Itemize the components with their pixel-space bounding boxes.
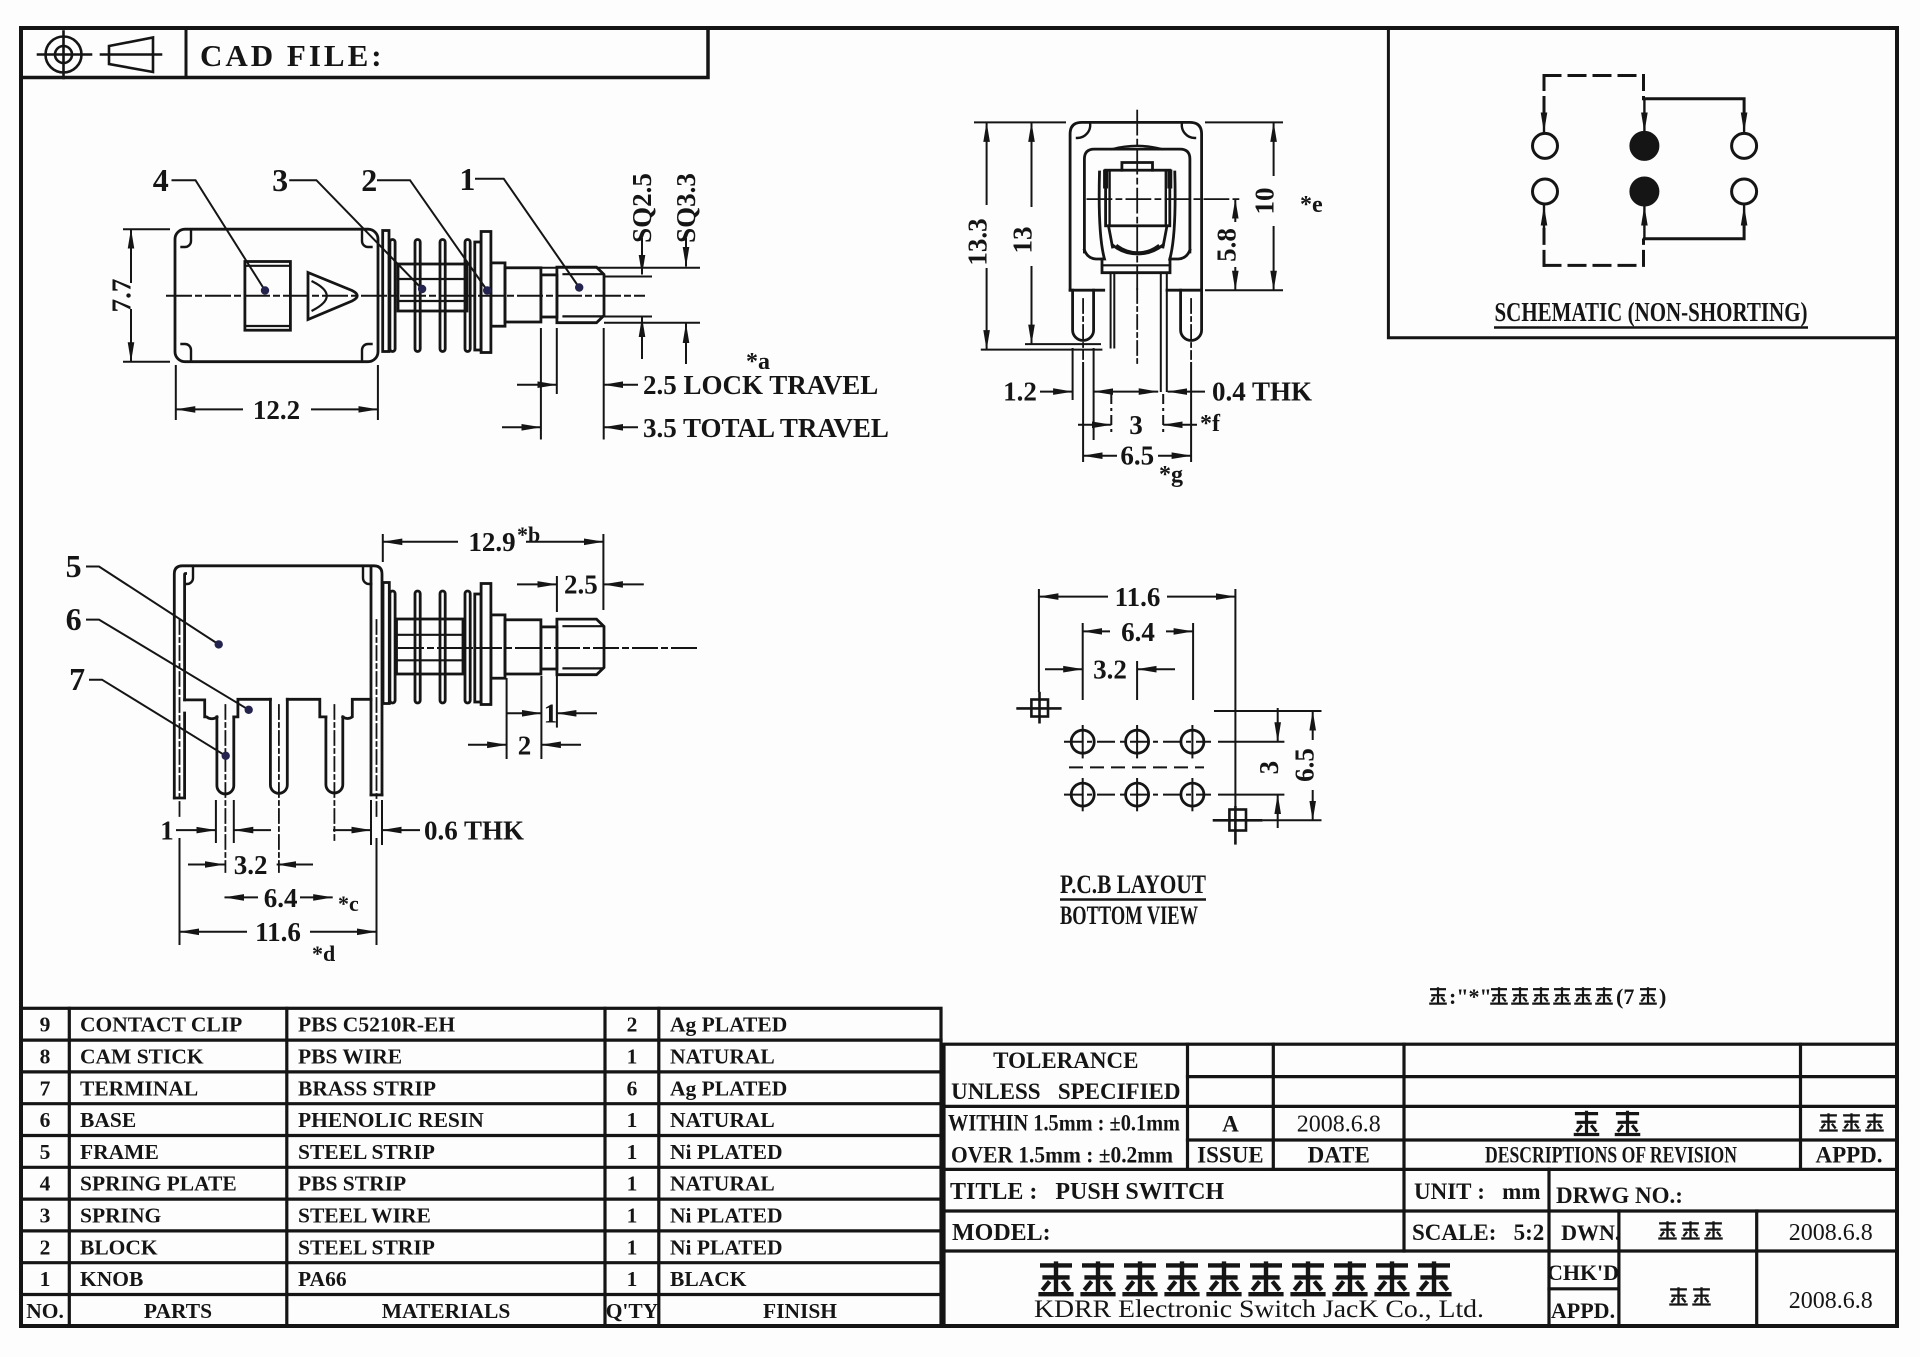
- frame left wall inner line: [185, 574, 186, 700]
- dim 3.2 pcb ext line: [1136, 661, 1138, 700]
- parts table frame: [21, 1008, 941, 1326]
- view2 dimensions: [86, 534, 644, 945]
- svg-text:*d: *d: [312, 941, 335, 966]
- svg-text:*e: *e: [1300, 192, 1323, 218]
- trapezoid under knob: [1109, 226, 1113, 247]
- pin circle open TR: [1732, 133, 1757, 158]
- svg-text:SQ2.5: SQ2.5: [627, 173, 657, 243]
- svg-text:NATURAL: NATURAL: [670, 1108, 775, 1132]
- neck view2: [541, 627, 557, 669]
- revision text 初版: [1574, 1111, 1600, 1135]
- shaft step view2: [491, 615, 505, 678]
- svg-text:6.5: 6.5: [1120, 441, 1154, 471]
- svg-text:PHENOLIC RESIN: PHENOLIC RESIN: [298, 1108, 484, 1132]
- mount hole bottom-right: [1213, 806, 1263, 845]
- svg-text:STEEL STRIP: STEEL STRIP: [298, 1140, 435, 1164]
- svg-text:(7: (7: [1616, 984, 1634, 1009]
- svg-text:TERMINAL: TERMINAL: [80, 1076, 198, 1100]
- svg-text:2: 2: [627, 1013, 638, 1037]
- dwn 张小姐: [1658, 1221, 1676, 1238]
- dim 1.2 arrows: [1040, 391, 1073, 393]
- pcb texts: [1060, 582, 1320, 930]
- front right leg: [1181, 290, 1202, 340]
- dim 3 arrows: [1078, 424, 1111, 426]
- svg-text:2: 2: [361, 162, 377, 198]
- dashed rect top edge: [1544, 74, 1644, 77]
- view1 dimensions: [123, 179, 700, 440]
- CAD FILE bar divider: [185, 28, 188, 78]
- svg-text:5: 5: [66, 548, 82, 584]
- pin 2 view2: [270, 699, 287, 793]
- dim 13.3: [986, 122, 988, 205]
- svg-text:3: 3: [1129, 410, 1143, 440]
- dim 0.6 THK arrows: [333, 829, 371, 831]
- svg-text:13.3: 13.3: [963, 218, 993, 265]
- svg-text:2.5: 2.5: [564, 570, 598, 600]
- svg-text:6: 6: [66, 601, 82, 637]
- dim 3.2 arrows view2: [188, 864, 225, 866]
- svg-text:CAM STICK: CAM STICK: [80, 1045, 204, 1069]
- cam stick block inside spring: [398, 264, 467, 311]
- frame right wall inner line: [370, 567, 373, 795]
- solid wire bottom: [1644, 226, 1744, 239]
- spring coils view1: [390, 240, 395, 352]
- svg-text:BLACK: BLACK: [670, 1267, 747, 1291]
- washer at body exit: [383, 231, 389, 352]
- spring coils view2: [390, 591, 395, 703]
- svg-text:8: 8: [40, 1045, 51, 1069]
- svg-text:Ag PLATED: Ag PLATED: [670, 1076, 787, 1100]
- frame right leg bottom: [371, 794, 382, 797]
- corner hook TL: [182, 229, 192, 247]
- knob corner marks: [1106, 172, 1170, 186]
- SQ2.5 arrow: [641, 238, 643, 275]
- SQ3.3 reference lines: [505, 267, 700, 269]
- corner hook BR: [362, 344, 372, 362]
- corner hook BL: [182, 344, 192, 362]
- svg-text:*g: *g: [1159, 462, 1183, 488]
- bottom ref line: [1263, 819, 1322, 821]
- svg-text:12.2: 12.2: [253, 395, 300, 425]
- svg-text::"*": :"*": [1449, 984, 1492, 1009]
- travel dim extension lines: [540, 328, 542, 440]
- row2 crosshair horizontal: [1064, 794, 1211, 796]
- svg-text:KDRR Electronic Switch JacK Co: KDRR Electronic Switch JacK Co., Ltd.: [1034, 1296, 1484, 1323]
- frame outline view2: [174, 566, 382, 798]
- top ext line: [974, 121, 1066, 123]
- svg-text:1: 1: [544, 699, 558, 729]
- svg-text:*a: *a: [746, 349, 770, 375]
- title block row lines: [1188, 1075, 1898, 1078]
- svg-text:UNLESS SPECIFIED: UNLESS SPECIFIED: [951, 1079, 1180, 1104]
- dim 3 pcb arrows: [1277, 708, 1279, 742]
- dim 11.6 arrows: [180, 931, 248, 933]
- column crosshair verticals: [1082, 725, 1084, 758]
- mount hole top-left: [1016, 692, 1061, 724]
- svg-text:5: 5: [40, 1140, 51, 1164]
- svg-text:APPD.: APPD.: [1815, 1143, 1882, 1168]
- leg centerlines: [1082, 299, 1084, 359]
- middle dashed line: [1069, 766, 1204, 768]
- svg-text:3: 3: [272, 162, 288, 198]
- pointer triangle: [308, 273, 357, 320]
- dim 12.2 arrow lines: [176, 408, 243, 410]
- pin circle open TL: [1533, 133, 1558, 158]
- svg-text:CHK'D: CHK'D: [1547, 1260, 1619, 1285]
- svg-text:10: 10: [1250, 188, 1280, 215]
- svg-text:NATURAL: NATURAL: [670, 1172, 775, 1196]
- dim 3.5 total travel arrows: [502, 426, 541, 428]
- svg-text:ISSUE: ISSUE: [1197, 1143, 1263, 1168]
- svg-text:4: 4: [153, 162, 169, 198]
- right ref line top hole: [1214, 710, 1322, 712]
- callout 3 leader: [289, 180, 422, 289]
- row1 crosshair horizontal: [1064, 741, 1211, 743]
- pin centerlines: [224, 705, 226, 872]
- shaft view2: [505, 620, 541, 674]
- right ext line y290: [1205, 289, 1283, 291]
- svg-text:13: 13: [1008, 227, 1038, 254]
- knob front square: [1106, 170, 1170, 226]
- svg-text:PBS STRIP: PBS STRIP: [298, 1172, 406, 1196]
- svg-text:3.5 TOTAL TRAVEL: 3.5 TOTAL TRAVEL: [643, 413, 889, 443]
- svg-text:): ): [1659, 984, 1666, 1009]
- svg-text:BOTTOM VIEW: BOTTOM VIEW: [1060, 901, 1198, 930]
- svg-text:1: 1: [627, 1267, 638, 1291]
- shaft step: [491, 263, 505, 326]
- svg-text:A: A: [1222, 1112, 1239, 1137]
- SQ2.5 lower arrow: [641, 318, 643, 360]
- note chars 表示关键尺寸: [1490, 987, 1508, 1003]
- stem under base: [1102, 259, 1170, 273]
- svg-text:P.C.B LAYOUT: P.C.B LAYOUT: [1060, 870, 1206, 899]
- svg-text:5.8: 5.8: [1211, 228, 1241, 262]
- shaft: [505, 268, 541, 322]
- corner hook TL view2: [185, 566, 193, 584]
- svg-text:MODEL:: MODEL:: [952, 1220, 1051, 1246]
- dim 1 pin arrows: [176, 829, 216, 831]
- pin 3 view2: [326, 717, 343, 793]
- chkd 刘工: [1669, 1287, 1687, 1304]
- svg-text:*c: *c: [338, 891, 359, 916]
- svg-text:2008.6.8: 2008.6.8: [1297, 1112, 1381, 1138]
- svg-text:2: 2: [40, 1235, 51, 1259]
- pad circles row1: [1071, 730, 1204, 806]
- left wall centerline: [179, 620, 181, 820]
- svg-text:12.9: 12.9: [468, 527, 515, 557]
- svg-text:7.7: 7.7: [107, 279, 137, 313]
- dim 11.6 pcb arrows: [1039, 596, 1108, 598]
- svg-text:NO.: NO.: [26, 1299, 64, 1323]
- svg-text:*b: *b: [517, 522, 540, 547]
- centerline view2: [399, 647, 697, 649]
- dim 7.7 extension lines: [123, 228, 170, 230]
- svg-text:4: 4: [40, 1172, 51, 1196]
- svg-text:FINISH: FINISH: [763, 1299, 837, 1323]
- corner hook front TL: [1077, 123, 1090, 138]
- knob top tab: [1122, 163, 1153, 171]
- svg-text:7: 7: [69, 661, 85, 697]
- parts table texts: [26, 1013, 837, 1323]
- projection symbol circle: [38, 32, 91, 79]
- svg-text:1: 1: [627, 1108, 638, 1132]
- spring dome arcs: [1113, 245, 1164, 254]
- svg-text:Ni PLATED: Ni PLATED: [670, 1204, 783, 1228]
- dim 3.2 pcb arrows: [1045, 668, 1083, 670]
- svg-text:STEEL WIRE: STEEL WIRE: [298, 1204, 431, 1228]
- dim 11.6 ext lines: [179, 838, 181, 945]
- svg-text:DATE: DATE: [1308, 1143, 1370, 1168]
- note char 注: [1429, 987, 1447, 1003]
- view2 texts: [66, 522, 598, 966]
- frame left leg bottom: [174, 713, 184, 798]
- parts table column lines: [68, 1008, 71, 1326]
- pin circle open BR: [1732, 179, 1757, 204]
- dim 0.4 arrows: [1168, 391, 1205, 393]
- dim 0.6 THK ext lines: [370, 800, 372, 845]
- dim 3 ext dashes: [1110, 394, 1112, 432]
- svg-text:11.6: 11.6: [255, 917, 301, 947]
- svg-text:1: 1: [160, 816, 174, 846]
- dim 10: [1273, 122, 1275, 176]
- dim 1 arrows: [506, 712, 541, 714]
- front frame bottom edges: [1070, 289, 1104, 292]
- svg-text:1: 1: [627, 1172, 638, 1196]
- dim 12.2 extension lines: [175, 365, 177, 420]
- svg-text:2008.6.8: 2008.6.8: [1789, 1220, 1873, 1246]
- svg-text:CONTACT CLIP: CONTACT CLIP: [80, 1013, 242, 1037]
- svg-text:6.4: 6.4: [264, 883, 298, 913]
- dim 2.5 knob ext line: [556, 576, 558, 612]
- front vertical centerline: [1136, 111, 1138, 289]
- svg-text:APPD.: APPD.: [1551, 1298, 1615, 1323]
- svg-text:PBS WIRE: PBS WIRE: [298, 1045, 402, 1069]
- dim 6.5 pcb arrows: [1312, 711, 1314, 740]
- CAD FILE bar: [21, 28, 708, 78]
- dim 2 arrows: [468, 744, 507, 746]
- svg-text:1: 1: [627, 1235, 638, 1259]
- svg-text:3.2: 3.2: [234, 850, 268, 880]
- corner hook TR: [362, 229, 372, 247]
- left wing: [1084, 172, 1104, 259]
- knob view2: [557, 619, 604, 675]
- svg-text:1: 1: [40, 1267, 51, 1291]
- svg-text:1: 1: [627, 1140, 638, 1164]
- dim 13: [1031, 122, 1033, 207]
- SQ3.3 arrow: [685, 238, 687, 267]
- base top dome: [1113, 146, 1162, 149]
- svg-text:SCALE: 5:2: SCALE: 5:2: [1412, 1220, 1544, 1245]
- svg-text:1: 1: [627, 1204, 638, 1228]
- svg-text:6.5: 6.5: [1290, 748, 1320, 782]
- pin circle filled BC: [1631, 178, 1658, 205]
- dashed rect bottom edge: [1544, 264, 1644, 267]
- callout 5 leader: [86, 567, 219, 645]
- dim 12.9 ext lines: [382, 534, 384, 562]
- dim 2.5 arrows view2: [517, 583, 557, 585]
- dim 7.7 arrow lines: [130, 229, 132, 283]
- dim 6.4 pcb arrows: [1083, 630, 1110, 632]
- dim 1 pin ext lines: [215, 800, 217, 843]
- svg-text:Ni PLATED: Ni PLATED: [670, 1235, 783, 1259]
- pin circle filled TC: [1631, 132, 1658, 159]
- corner hook TR view2: [363, 566, 371, 584]
- front view dimensions: [974, 122, 1283, 462]
- svg-text:KNOB: KNOB: [80, 1267, 143, 1291]
- dates (regular serif): [1297, 1112, 1873, 1315]
- front view texts: [963, 188, 1323, 489]
- svg-text:SCHEMATIC (NON-SHORTING): SCHEMATIC (NON-SHORTING): [1495, 297, 1808, 327]
- svg-text:9: 9: [40, 1013, 51, 1037]
- svg-text:Ni PLATED: Ni PLATED: [670, 1140, 783, 1164]
- svg-text:1.2: 1.2: [1003, 377, 1037, 407]
- svg-text:1: 1: [459, 161, 475, 197]
- svg-text:TITLE : PUSH SWITCH: TITLE : PUSH SWITCH: [950, 1179, 1224, 1205]
- parts table row lines: [21, 1038, 941, 1041]
- neck: [541, 275, 557, 317]
- svg-text:0.4 THK: 0.4 THK: [1212, 377, 1312, 407]
- thin pin right front: [1161, 273, 1167, 391]
- svg-text:WITHIN 1.5mm : ±0.1mm: WITHIN 1.5mm : ±0.1mm: [948, 1111, 1180, 1136]
- flange plates: [475, 242, 481, 350]
- front frame outline: [1070, 122, 1202, 290]
- pin 1 view2: [217, 717, 234, 794]
- dim 1 neck ext lines: [540, 676, 542, 759]
- svg-text:STEEL STRIP: STEEL STRIP: [298, 1235, 435, 1259]
- svg-text:PARTS: PARTS: [144, 1299, 212, 1323]
- right wing: [1170, 172, 1190, 259]
- note char 个: [1639, 987, 1657, 1003]
- svg-text:UNIT : mm: UNIT : mm: [1414, 1179, 1541, 1204]
- dim 2.5 lock travel arrows: [517, 384, 557, 386]
- bottom ext lines 13.3 / 13: [981, 349, 1103, 351]
- svg-text:3: 3: [1254, 761, 1284, 775]
- svg-text:PBS C5210R-EH: PBS C5210R-EH: [298, 1013, 455, 1037]
- svg-text:Ag PLATED: Ag PLATED: [670, 1013, 787, 1037]
- SQ3.3 lower arrow: [685, 324, 687, 365]
- svg-text:SQ3.3: SQ3.3: [671, 173, 701, 243]
- svg-text:DESCRIPTIONS OF REVISION: DESCRIPTIONS OF REVISION: [1485, 1143, 1737, 1168]
- svg-text:3: 3: [40, 1204, 51, 1228]
- svg-text:1: 1: [627, 1045, 638, 1069]
- svg-text:11.6: 11.6: [1115, 582, 1161, 612]
- callout 7 leader: [89, 680, 226, 756]
- callout 1 leader: [475, 179, 579, 288]
- callout 2 leader: [377, 180, 487, 290]
- callout 4 leader: [172, 180, 266, 290]
- dashed left vertical bottom with arrow: [1543, 222, 1546, 265]
- svg-text:BASE: BASE: [80, 1108, 136, 1132]
- svg-text:Q'TY: Q'TY: [606, 1299, 659, 1323]
- dashed left vertical top with arrow: [1543, 76, 1546, 121]
- right ref segments rows: [1218, 741, 1284, 743]
- projection symbol cone: [101, 38, 161, 73]
- svg-text:SPRING: SPRING: [80, 1204, 162, 1228]
- svg-text:CAD FILE:: CAD FILE:: [200, 38, 385, 73]
- svg-text:MATERIALS: MATERIALS: [382, 1299, 511, 1323]
- base outline front: [1084, 149, 1190, 252]
- svg-text:*f: *f: [1200, 411, 1221, 437]
- svg-text:BLOCK: BLOCK: [80, 1235, 158, 1259]
- dim 6.4 pcb ext lines: [1082, 623, 1084, 700]
- title block frame: [944, 1044, 1897, 1326]
- solid wire top: [1644, 99, 1744, 112]
- cam stick block view2: [397, 619, 464, 674]
- appd 张小姐 top: [1819, 1113, 1837, 1130]
- dim 12.9 arrows: [383, 541, 458, 543]
- svg-text:DRWG NO.:: DRWG NO.:: [1556, 1183, 1683, 1208]
- svg-text:3.2: 3.2: [1093, 655, 1127, 685]
- spring plate (part 4) rect: [245, 262, 291, 331]
- corner hook front TR: [1182, 123, 1195, 138]
- title block texts: [948, 1048, 1883, 1323]
- company name CJK: [1038, 1261, 1073, 1294]
- dim 11.6 pcb ext lines: [1038, 589, 1040, 692]
- washer view2: [383, 583, 389, 704]
- right wall centerline: [376, 620, 378, 820]
- thin pin left front: [1111, 273, 1115, 348]
- dashed right vertical top: [1642, 76, 1645, 99]
- front left leg: [1073, 290, 1094, 340]
- dashed right vertical bottom: [1642, 240, 1645, 265]
- view1 texts: [107, 161, 889, 443]
- svg-text:6: 6: [627, 1076, 638, 1100]
- callout 6 leader: [86, 620, 249, 710]
- base bottom profile: [185, 700, 217, 719]
- svg-text:PA66: PA66: [298, 1267, 347, 1291]
- dim 1.2 ext lines: [1072, 348, 1074, 400]
- knob (part 1): [557, 267, 604, 323]
- svg-text:6: 6: [40, 1108, 51, 1132]
- svg-text:FRAME: FRAME: [80, 1140, 159, 1164]
- schematic box frame: [1388, 30, 1897, 338]
- body frame view1: [175, 229, 378, 362]
- svg-text:SPRING PLATE: SPRING PLATE: [80, 1172, 237, 1196]
- svg-text:7: 7: [40, 1076, 51, 1100]
- flange plates view2: [475, 594, 481, 702]
- svg-text:TOLERANCE: TOLERANCE: [993, 1048, 1138, 1073]
- svg-text:2008.6.8: 2008.6.8: [1789, 1288, 1873, 1314]
- dim 6.5 arrows: [1083, 455, 1117, 457]
- svg-text:6.4: 6.4: [1121, 617, 1155, 647]
- centerline view1: [167, 295, 644, 297]
- svg-text:OVER 1.5mm : ±0.2mm: OVER 1.5mm : ±0.2mm: [951, 1143, 1173, 1168]
- dim 6.5 ext lines: [1082, 362, 1084, 462]
- dim 2 ext line: [506, 678, 508, 759]
- pin circle open BL: [1533, 179, 1558, 204]
- dim 6.4 arrows view2: [225, 896, 259, 898]
- svg-text:0.6 THK: 0.6 THK: [424, 816, 524, 846]
- SQ2.5 reference lines: [604, 276, 652, 278]
- svg-text:2: 2: [518, 731, 532, 761]
- dim 5.8: [1234, 199, 1236, 222]
- svg-text:BRASS STRIP: BRASS STRIP: [298, 1076, 436, 1100]
- knob horizontal centerline: [1087, 198, 1242, 200]
- title block column lines: [1186, 1044, 1189, 1169]
- svg-text:NATURAL: NATURAL: [670, 1045, 775, 1069]
- svg-text:DWN.: DWN.: [1561, 1220, 1620, 1245]
